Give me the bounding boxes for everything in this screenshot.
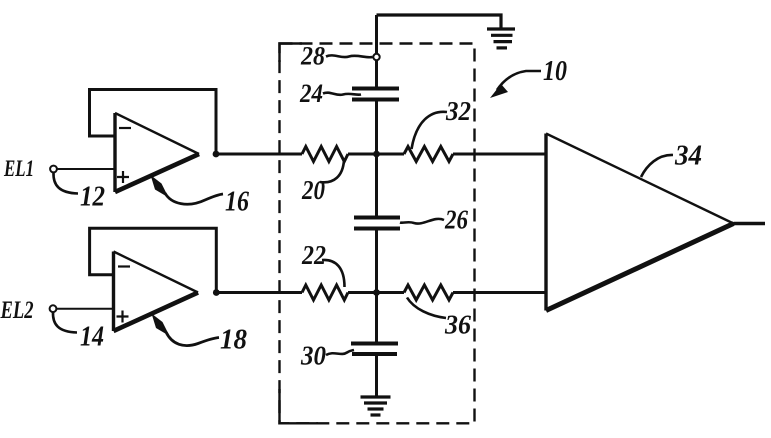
leader for ref 28: [326, 55, 373, 57]
op-amp U16 feedback loop wire: [90, 90, 217, 155]
node: op-amp U16 output junction: [213, 151, 220, 158]
op-amp U18 feedback loop wire: [90, 228, 217, 292]
svg-text:36: 36: [444, 310, 471, 340]
wire 2: resistor 36 to amp 34: [453, 291, 546, 294]
wire center vertical (cap24 to wire1): [375, 100, 378, 155]
resistor R22: [302, 285, 348, 300]
capacitor C24: [352, 89, 399, 100]
op-amp U16 non-inverting input mark +: [117, 171, 129, 183]
capacitor C26: [354, 218, 400, 229]
resistor R32: [404, 147, 453, 162]
op-amp U16 triangle: [115, 113, 199, 192]
op-amp U18 triangle: [114, 252, 199, 332]
leader for ref 14: [53, 312, 77, 333]
resistor R20: [302, 147, 348, 162]
node 28 (open circle): [373, 54, 379, 60]
op-amp U18 non-inverting input mark +: [117, 311, 129, 323]
dashed box 10: [280, 44, 475, 424]
svg-text:12: 12: [80, 182, 105, 213]
resistor R36: [404, 285, 453, 300]
wire center vertical (top section): [375, 15, 378, 87]
wire center vertical (cap26 to wire2): [375, 229, 378, 293]
wire 2: op-amp 18 output to resistor 22: [218, 291, 302, 294]
leader for ref 34: [641, 155, 673, 177]
svg-text:30: 30: [300, 341, 326, 371]
capacitor C30: [351, 344, 398, 355]
terminal EL2: [50, 305, 57, 312]
svg-text:18: 18: [220, 325, 247, 356]
svg-text:10: 10: [543, 56, 567, 87]
wire EL1 to op-amp U16 + input: [57, 168, 115, 170]
svg-text:34: 34: [674, 140, 702, 172]
svg-text:32: 32: [445, 96, 471, 126]
wire center vertical (wire2 to cap30): [375, 293, 378, 344]
wire center vertical (cap30 to ground): [375, 354, 378, 396]
svg-text:16: 16: [225, 187, 249, 218]
leader for ref 36: [407, 298, 446, 319]
svg-text:22: 22: [301, 240, 326, 270]
leader arrow for ref 10: [490, 71, 541, 98]
leader for ref 26: [400, 219, 444, 224]
wire 1: resistor 20 to resistor 32: [348, 153, 404, 156]
wire 1: resistor 32 to amp 34: [453, 153, 546, 156]
svg-text:28: 28: [300, 42, 325, 71]
svg-text:20: 20: [301, 175, 325, 205]
leader for ref 20: [320, 160, 344, 182]
wire center vertical (wire1 to cap26): [375, 154, 378, 217]
wire 2: resistor 22 to resistor 36: [348, 291, 404, 294]
leader for ref 32: [412, 112, 448, 149]
leader for ref 22: [322, 260, 345, 287]
terminal EL1: [50, 166, 57, 173]
svg-text:24: 24: [299, 79, 323, 108]
svg-text:26: 26: [444, 205, 468, 235]
leader arrow for ref 18: [152, 314, 220, 346]
dashed box corner strokes: [280, 44, 303, 63]
op-amp U34 triangle: [546, 134, 734, 311]
wire EL2 to op-amp U18 + input: [57, 308, 114, 310]
node: op-amp U18 output junction: [213, 289, 220, 296]
wire top from node to ground: [377, 15, 502, 28]
ground (top right): [487, 29, 515, 48]
leader for ref 30: [326, 350, 354, 355]
wire 1: op-amp 16 output to resistor 20: [218, 153, 302, 156]
node junction wire2/center: [373, 289, 380, 296]
svg-text:14: 14: [80, 322, 104, 353]
leader for ref 24: [323, 93, 361, 95]
node junction wire1/center: [373, 151, 380, 158]
svg-text:EL1: EL1: [3, 156, 34, 181]
op-amp U16 inverting input mark -: [119, 127, 131, 129]
wire amp 34 output: [734, 222, 766, 225]
leader arrow for ref 16: [151, 175, 224, 204]
op-amp U18 inverting input mark -: [118, 265, 130, 267]
ground (bottom): [361, 397, 391, 415]
leader for ref 12: [53, 173, 78, 194]
svg-text:EL2: EL2: [0, 297, 34, 324]
